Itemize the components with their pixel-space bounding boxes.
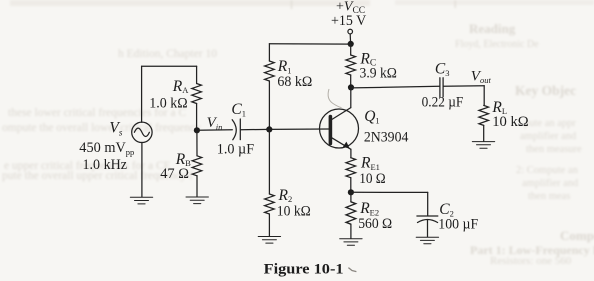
label RA [172, 78, 189, 95]
wire [269, 43, 350, 45]
svg-text:2N3904: 2N3904 [364, 130, 409, 146]
svg-text:10 kΩ: 10 kΩ [492, 114, 529, 130]
svg-text:3.9 kΩ: 3.9 kΩ [360, 66, 397, 82]
svg-text:then meas: then meas [528, 191, 570, 202]
svg-text:+15 V: +15 V [331, 13, 366, 29]
label +VCC [336, 0, 365, 16]
label VS [109, 119, 122, 137]
wire [350, 87, 352, 107]
svg-text:560 Ω: 560 Ω [358, 216, 392, 232]
wire [350, 178, 352, 193]
svg-text:h Edition, Chapter 10: h Edition, Chapter 10 [118, 48, 217, 60]
label RE1 [360, 155, 380, 172]
svg-text:Figure 10-1: Figure 10-1 [264, 260, 344, 277]
resistor RE1 [346, 158, 356, 178]
ground RB [186, 197, 208, 204]
wire [141, 66, 143, 122]
ground VS [130, 197, 152, 204]
svg-text:then measure: then measure [526, 144, 582, 155]
label R2 [278, 187, 293, 204]
label R1 [277, 58, 292, 75]
resistor RA [192, 84, 202, 104]
svg-text:Key Objec: Key Objec [515, 83, 576, 98]
svg-text:10 Ω: 10 Ω [359, 171, 386, 187]
label 560 Ohm [358, 216, 392, 232]
label 1.0 kHz [83, 157, 128, 173]
label 3.9 kOhm [360, 66, 397, 82]
wire [443, 85, 484, 87]
ground RL [472, 142, 494, 149]
wire [196, 130, 198, 156]
svg-text:1.0 µF: 1.0 µF [217, 142, 254, 158]
label Vout [471, 69, 492, 86]
node emitter junction [348, 189, 354, 195]
label 100 uF [438, 217, 478, 233]
label 1.0 kOhm [149, 96, 187, 112]
svg-text:10 kΩ: 10 kΩ [277, 204, 311, 220]
label RE2 [359, 200, 379, 217]
VCC terminal [348, 29, 353, 44]
label RB [175, 151, 191, 168]
label 10 kOhm R2 [277, 204, 311, 220]
svg-text:Compon: Compon [560, 228, 594, 243]
ground RE2 [340, 239, 362, 246]
resistor RB [192, 156, 202, 176]
wire [351, 86, 440, 88]
label C2 [439, 201, 454, 219]
svg-text:47 Ω: 47 Ω [160, 166, 189, 182]
resistor RL [479, 105, 489, 125]
svg-text:1.0 kHz: 1.0 kHz [83, 157, 128, 173]
resistor RC [346, 55, 356, 75]
svg-text:1.0 kΩ: 1.0 kΩ [149, 96, 187, 112]
wire [268, 129, 270, 194]
svg-text:2: Compute an: 2: Compute an [516, 165, 579, 176]
node VCC [348, 41, 354, 47]
svg-text:100 µF: 100 µF [438, 217, 478, 233]
wire [141, 143, 143, 197]
label 450 mVpp [79, 140, 134, 157]
wire [427, 220, 429, 237]
svg-text:amplifier and: amplifier and [522, 178, 579, 189]
label 68 kOhm [277, 74, 312, 90]
wire [269, 128, 328, 130]
label RL [491, 99, 507, 116]
wire [268, 44, 270, 61]
label 47 Ohm [160, 166, 189, 182]
label Vin [207, 115, 223, 132]
wire [196, 66, 198, 83]
label C3 [435, 61, 450, 79]
resistor R2 [265, 194, 275, 214]
svg-text:Reading: Reading [469, 21, 516, 36]
label Figure 10-1 [264, 260, 344, 277]
stray pencil mark near Q1 [328, 89, 341, 108]
transistor Q1 [320, 108, 359, 150]
label 0.22 uF [422, 95, 464, 111]
label C1 [231, 101, 246, 119]
wire [483, 125, 485, 141]
wire [196, 176, 198, 197]
svg-text:amplifier and: amplifier and [520, 131, 577, 142]
wire [350, 149, 352, 157]
wire [483, 86, 485, 106]
wire [350, 75, 352, 87]
wire [268, 214, 270, 236]
node Vin [194, 127, 200, 133]
capacitor C3 [440, 78, 443, 97]
wire [241, 128, 270, 130]
ground R2 [258, 237, 280, 244]
wire [351, 191, 428, 193]
node base [266, 126, 272, 132]
ground C2 [416, 237, 438, 244]
capacitor C1 [232, 119, 240, 140]
label +15 V [331, 13, 366, 29]
label 1.0 uF [217, 142, 254, 158]
resistor RE2 [346, 202, 356, 224]
label 2N3904 [364, 130, 409, 146]
label RC [359, 50, 376, 68]
wire [196, 104, 198, 131]
wire [197, 129, 232, 131]
wire [427, 192, 429, 216]
resistor R1 [265, 61, 275, 81]
svg-text:ompute the overall lower criti: ompute the overall lower critical freque… [2, 122, 201, 134]
wire [350, 44, 352, 55]
wire [350, 192, 352, 202]
label 10 Ohm [359, 171, 386, 187]
node collector [348, 84, 354, 90]
source VS [132, 122, 152, 142]
svg-text:Floyd, Electronic De: Floyd, Electronic De [455, 39, 539, 50]
svg-text:68 kΩ: 68 kΩ [277, 74, 312, 90]
label Q1 [364, 108, 379, 125]
svg-text:0.22 µF: 0.22 µF [422, 95, 464, 111]
wire [350, 224, 352, 238]
stray mark after figure caption [348, 268, 356, 272]
label 10 kOhm RL [492, 114, 529, 130]
wire [268, 81, 270, 129]
capacitor C2 [417, 216, 438, 223]
svg-text:Resistors: one 560: Resistors: one 560 [490, 255, 572, 267]
wire [142, 65, 197, 67]
svg-text:pute an appr: pute an appr [524, 118, 576, 129]
